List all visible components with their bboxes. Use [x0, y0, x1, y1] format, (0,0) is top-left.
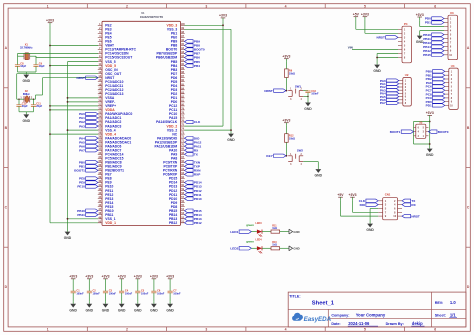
- svg-text:PA3: PA3: [79, 124, 85, 128]
- svg-text:+5V: +5V: [337, 193, 344, 197]
- svg-text:20pF: 20pF: [36, 105, 42, 108]
- svg-text:PD1: PD1: [425, 21, 431, 25]
- svg-text:PA7: PA7: [380, 101, 386, 105]
- svg-text:Your Company: Your Company: [356, 313, 386, 318]
- svg-text:GND: GND: [304, 107, 312, 111]
- svg-text:CN1: CN1: [385, 192, 391, 196]
- svg-text:+3V3: +3V3: [46, 19, 54, 23]
- svg-text:+3V3: +3V3: [348, 193, 356, 197]
- svg-text:2: 2: [126, 328, 128, 332]
- svg-text:GND: GND: [426, 153, 434, 157]
- svg-text:GND: GND: [118, 308, 126, 312]
- svg-text:dekip: dekip: [412, 321, 423, 326]
- svg-text:100nF: 100nF: [76, 292, 84, 295]
- svg-text:+3V3: +3V3: [69, 275, 77, 279]
- svg-text:GND: GND: [293, 247, 299, 251]
- svg-text:BOOT1: BOOT1: [390, 130, 401, 134]
- svg-text:GND: GND: [293, 230, 299, 234]
- svg-text:6: 6: [434, 328, 436, 332]
- svg-text:U3: U3: [450, 11, 454, 15]
- svg-text:1/1: 1/1: [450, 313, 456, 318]
- svg-text:10kΩ: 10kΩ: [289, 73, 295, 76]
- svg-text:+3V3: +3V3: [118, 275, 126, 279]
- svg-text:+3V3: +3V3: [101, 275, 109, 279]
- svg-text:+3V3: +3V3: [426, 111, 434, 115]
- svg-text:1: 1: [47, 328, 49, 332]
- svg-text:3: 3: [205, 328, 207, 332]
- svg-text:1kΩ: 1kΩ: [272, 227, 277, 230]
- svg-text:Date:: Date:: [331, 322, 340, 326]
- svg-text:1: 1: [47, 4, 49, 8]
- svg-text:GND: GND: [23, 79, 31, 83]
- svg-text:10kΩ: 10kΩ: [289, 137, 295, 140]
- svg-text:GND: GND: [166, 308, 174, 312]
- svg-text:LED2: LED2: [230, 247, 238, 251]
- svg-text:4: 4: [285, 328, 287, 332]
- svg-text:100nF: 100nF: [125, 292, 133, 295]
- svg-text:green: green: [246, 240, 254, 244]
- svg-text:GND: GND: [69, 308, 77, 312]
- svg-text:100nF: 100nF: [141, 292, 149, 295]
- svg-text:18pF: 18pF: [20, 65, 26, 68]
- svg-text:GND: GND: [373, 69, 381, 73]
- svg-text:GND: GND: [150, 308, 158, 312]
- svg-text:+3V3: +3V3: [282, 119, 290, 123]
- svg-text:SW2: SW2: [297, 149, 304, 153]
- svg-text:BOOT0: BOOT0: [438, 130, 449, 134]
- svg-text:green: green: [246, 223, 254, 227]
- svg-text:NRST: NRST: [376, 36, 385, 40]
- svg-text:+3V3: +3V3: [134, 275, 142, 279]
- svg-text:PB11: PB11: [77, 213, 85, 217]
- svg-text:+5V: +5V: [353, 13, 360, 17]
- svg-text:+3V3: +3V3: [166, 275, 174, 279]
- svg-text:+3V3: +3V3: [85, 275, 93, 279]
- svg-text:PD1: PD1: [426, 104, 432, 108]
- svg-text:U4: U4: [451, 64, 455, 68]
- svg-text:PB15: PB15: [423, 53, 431, 57]
- svg-text:Sheet:: Sheet:: [435, 314, 446, 318]
- svg-text:GND: GND: [102, 308, 110, 312]
- svg-text:100nF: 100nF: [109, 292, 117, 295]
- svg-text:CLK: CLK: [194, 120, 201, 124]
- svg-text:X5: X5: [419, 120, 423, 124]
- svg-text:1kΩ: 1kΩ: [272, 244, 277, 247]
- svg-text:100nF: 100nF: [93, 292, 101, 295]
- svg-text:PA7: PA7: [79, 148, 85, 152]
- svg-text:REV:: REV:: [435, 301, 444, 305]
- svg-text:VDD_1: VDD_1: [105, 221, 116, 225]
- svg-text:4: 4: [285, 4, 287, 8]
- svg-text:RXP: RXP: [194, 173, 200, 177]
- svg-text:2: 2: [126, 4, 128, 8]
- svg-text:PB4: PB4: [194, 64, 200, 68]
- svg-text:NRST: NRST: [264, 89, 273, 93]
- svg-text:PB12: PB12: [169, 221, 177, 225]
- svg-text:GND: GND: [416, 40, 424, 44]
- svg-text:GND: GND: [366, 228, 374, 232]
- svg-text:GND: GND: [64, 236, 72, 240]
- svg-text:2024-11-06: 2024-11-06: [348, 321, 370, 326]
- svg-text:GND: GND: [315, 174, 323, 178]
- svg-text:P4: P4: [404, 22, 408, 26]
- svg-text:+3V3: +3V3: [416, 13, 424, 17]
- svg-text:32.768kHz: 32.768kHz: [20, 45, 33, 49]
- svg-text:100nF: 100nF: [157, 292, 165, 295]
- svg-text:PB12: PB12: [194, 221, 202, 225]
- svg-text:LED1: LED1: [230, 230, 238, 234]
- svg-text:20pF: 20pF: [22, 105, 28, 108]
- svg-text:GND: GND: [227, 138, 235, 142]
- svg-text:3: 3: [205, 4, 207, 8]
- svg-text:GND: GND: [86, 308, 94, 312]
- svg-text:NRST: NRST: [411, 214, 420, 218]
- svg-text:NRST: NRST: [76, 76, 85, 80]
- svg-text:5: 5: [364, 328, 366, 332]
- svg-text:LED4: LED4: [256, 239, 263, 242]
- svg-text:LED3: LED3: [256, 222, 263, 225]
- svg-text:KEY: KEY: [266, 154, 273, 158]
- svg-text:Company:: Company:: [331, 314, 349, 318]
- svg-text:8MHz: 8MHz: [23, 92, 30, 96]
- svg-text:Drawn By:: Drawn By:: [386, 322, 404, 326]
- svg-text:+3V3: +3V3: [361, 13, 369, 17]
- svg-text:VIN: VIN: [348, 45, 353, 49]
- svg-text:1.0: 1.0: [450, 300, 456, 305]
- svg-text:BOOT1: BOOT1: [74, 169, 85, 173]
- svg-text:Sheet_1: Sheet_1: [312, 300, 335, 306]
- svg-text:18pF: 18pF: [39, 65, 45, 68]
- svg-text:GND: GND: [134, 308, 142, 312]
- svg-text:100nF: 100nF: [173, 292, 181, 295]
- svg-text:PD10: PD10: [194, 197, 202, 201]
- svg-text:+3V3: +3V3: [219, 14, 227, 18]
- svg-text:5: 5: [364, 4, 366, 8]
- svg-text:U2: U2: [405, 73, 409, 77]
- svg-text:PE10: PE10: [77, 185, 85, 189]
- svg-text:+3V3: +3V3: [282, 55, 290, 59]
- svg-text:100nF: 100nF: [311, 93, 319, 96]
- svg-text:DIO: DIO: [360, 203, 366, 207]
- svg-text:6: 6: [434, 4, 436, 8]
- svg-text:CH32V307VCT6: CH32V307VCT6: [140, 15, 163, 19]
- svg-text:TITLE:: TITLE:: [289, 295, 300, 299]
- svg-text:GND: GND: [23, 119, 31, 123]
- svg-text:+3V3: +3V3: [150, 275, 158, 279]
- svg-text:EasyEDA: EasyEDA: [304, 316, 332, 323]
